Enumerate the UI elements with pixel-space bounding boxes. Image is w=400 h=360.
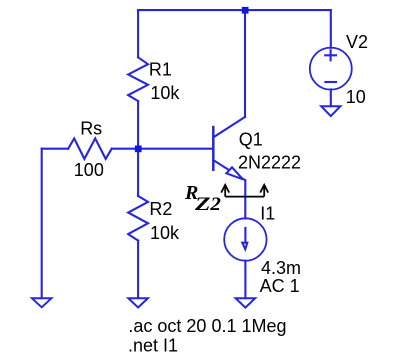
svg-text:AC 1: AC 1 (260, 276, 300, 296)
svg-text:10k: 10k (150, 83, 180, 103)
svg-text:10k: 10k (150, 223, 180, 243)
svg-text:Q1: Q1 (239, 129, 263, 149)
svg-text:R2: R2 (149, 199, 172, 219)
svg-text:2N2222: 2N2222 (238, 153, 301, 173)
svg-text:I1: I1 (260, 204, 275, 224)
svg-text:10: 10 (346, 87, 366, 107)
svg-text:R1: R1 (149, 60, 172, 80)
svg-text:.ac oct 20 0.1 1Meg: .ac oct 20 0.1 1Meg (128, 316, 286, 336)
svg-text:4.3m: 4.3m (261, 258, 301, 278)
svg-text:Z: Z (194, 194, 211, 215)
svg-text:Rs: Rs (80, 119, 102, 139)
svg-text:100: 100 (74, 160, 104, 180)
svg-text:2: 2 (209, 194, 221, 215)
svg-text:V2: V2 (346, 32, 368, 52)
svg-text:.net I1: .net I1 (128, 336, 178, 356)
